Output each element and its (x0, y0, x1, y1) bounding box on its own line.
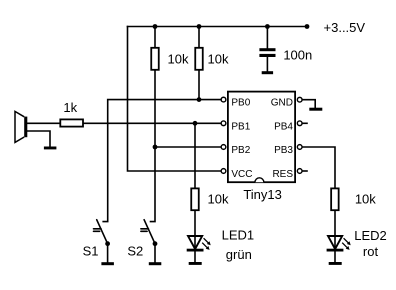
svg-text:10k: 10k (208, 191, 229, 206)
svg-text:RES: RES (272, 169, 293, 180)
svg-text:10k: 10k (208, 51, 229, 66)
svg-text:PB1: PB1 (231, 121, 250, 132)
svg-text:rot: rot (363, 244, 379, 259)
svg-text:S2: S2 (127, 243, 143, 258)
svg-text:grün: grün (226, 247, 252, 262)
svg-text:VCC: VCC (231, 169, 252, 180)
svg-text:PB2: PB2 (231, 145, 250, 156)
svg-text:S1: S1 (83, 243, 99, 258)
svg-text:GND: GND (271, 98, 293, 109)
svg-text:+3...5V: +3...5V (324, 20, 366, 35)
svg-text:100n: 100n (283, 47, 312, 62)
svg-text:10k: 10k (168, 51, 189, 66)
svg-text:LED1: LED1 (222, 227, 255, 242)
svg-text:PB3: PB3 (274, 145, 293, 156)
svg-text:Tiny13: Tiny13 (243, 187, 282, 202)
svg-text:1k: 1k (63, 100, 77, 115)
svg-text:PB0: PB0 (231, 98, 250, 109)
svg-text:LED2: LED2 (354, 228, 387, 243)
svg-text:PB4: PB4 (274, 121, 293, 132)
svg-text:10k: 10k (355, 192, 376, 207)
